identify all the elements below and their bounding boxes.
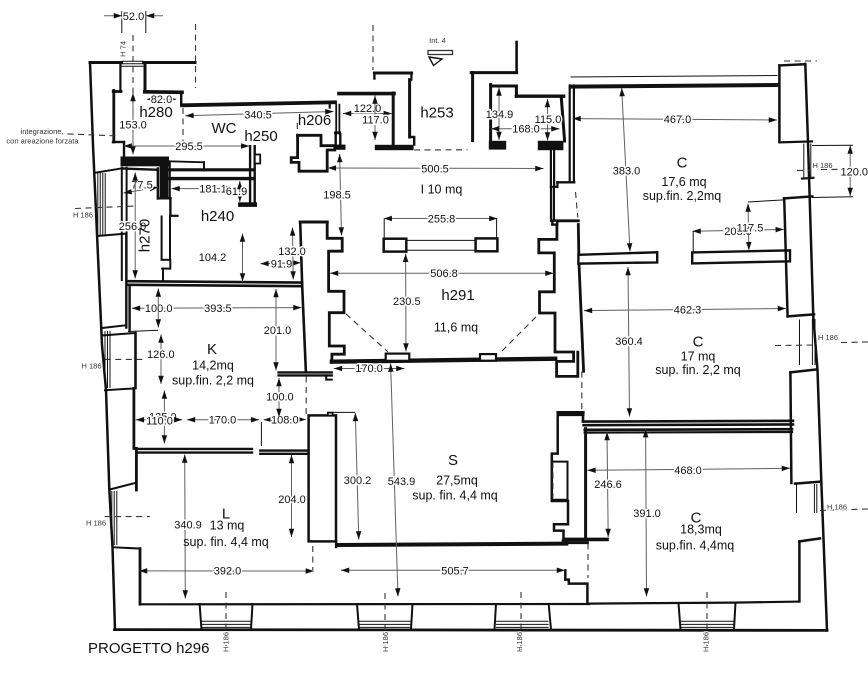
svg-text:17,6 mq: 17,6 mq xyxy=(661,175,706,189)
svg-text:h280: h280 xyxy=(139,104,172,121)
svg-text:H 186: H 186 xyxy=(81,362,101,371)
svg-text:543.9: 543.9 xyxy=(388,476,416,488)
svg-text:C: C xyxy=(693,334,704,351)
svg-text:110.0: 110.0 xyxy=(146,415,173,427)
svg-text:198.5: 198.5 xyxy=(323,190,351,202)
svg-text:integrazione: integrazione xyxy=(21,127,62,136)
svg-text:27,5mq: 27,5mq xyxy=(436,474,478,488)
svg-text:467.0: 467.0 xyxy=(664,114,692,126)
svg-text:181.1: 181.1 xyxy=(199,183,227,195)
svg-text:H 186: H 186 xyxy=(818,333,838,342)
svg-text:h206: h206 xyxy=(298,112,331,129)
svg-text:383.0: 383.0 xyxy=(613,165,641,177)
svg-text:120.0: 120.0 xyxy=(841,167,868,179)
svg-text:77.5: 77.5 xyxy=(131,179,152,191)
svg-text:h250: h250 xyxy=(244,128,277,145)
svg-text:100.0: 100.0 xyxy=(266,392,294,404)
svg-text:h253: h253 xyxy=(420,105,453,122)
svg-text:18,3mq: 18,3mq xyxy=(680,523,722,537)
svg-text:117.5: 117.5 xyxy=(737,222,764,234)
svg-text:391.0: 391.0 xyxy=(633,508,661,520)
svg-text:201.0: 201.0 xyxy=(264,325,292,337)
svg-text:153.0: 153.0 xyxy=(119,119,147,131)
svg-text:61.9: 61.9 xyxy=(226,186,247,198)
svg-text:h291: h291 xyxy=(441,287,474,304)
svg-text:13 mq: 13 mq xyxy=(210,519,245,533)
svg-text:170.0: 170.0 xyxy=(209,414,237,426)
svg-text:300.2: 300.2 xyxy=(344,475,372,487)
svg-text:117.0: 117.0 xyxy=(362,114,389,126)
svg-text:H 186: H 186 xyxy=(381,632,390,652)
svg-text:11,6 mq: 11,6 mq xyxy=(434,321,478,335)
svg-text:134.9: 134.9 xyxy=(486,109,514,121)
svg-text:sup.fin. 4,4mq: sup.fin. 4,4mq xyxy=(656,539,735,553)
svg-text:H 186: H 186 xyxy=(702,632,711,652)
svg-text:108.0: 108.0 xyxy=(271,414,299,426)
svg-text:WC: WC xyxy=(212,120,237,137)
svg-text:sup. fin. 4,4 mq: sup. fin. 4,4 mq xyxy=(412,489,498,503)
svg-text:17 mq: 17 mq xyxy=(681,350,716,364)
svg-text:462.3: 462.3 xyxy=(674,304,702,316)
svg-text:52.0: 52.0 xyxy=(123,11,144,23)
svg-text:H 186: H 186 xyxy=(86,519,106,528)
svg-text:122.0: 122.0 xyxy=(354,103,382,115)
svg-text:506.8: 506.8 xyxy=(430,268,458,280)
svg-text:I 10 mq: I 10 mq xyxy=(421,183,463,197)
svg-text:295.5: 295.5 xyxy=(175,141,203,153)
svg-text:sup.fin. 2,2 mq: sup.fin. 2,2 mq xyxy=(172,373,254,387)
svg-text:340.5: 340.5 xyxy=(244,110,272,122)
svg-text:360.4: 360.4 xyxy=(615,336,643,348)
svg-text:H 186: H 186 xyxy=(222,632,231,652)
svg-text:246.6: 246.6 xyxy=(594,479,622,491)
svg-text:132.0: 132.0 xyxy=(278,246,306,258)
svg-text:H 74: H 74 xyxy=(119,41,128,57)
svg-text:Int. 4: Int. 4 xyxy=(429,36,446,45)
svg-text:392.0: 392.0 xyxy=(214,566,242,578)
svg-text:255.8: 255.8 xyxy=(428,213,456,225)
svg-text:468.0: 468.0 xyxy=(674,465,702,477)
svg-text:126.0: 126.0 xyxy=(147,349,175,361)
svg-text:h270: h270 xyxy=(137,219,154,252)
svg-text:91.9: 91.9 xyxy=(271,259,292,271)
svg-text:con areazione forzata: con areazione forzata xyxy=(6,137,79,146)
svg-text:S: S xyxy=(448,452,458,469)
svg-text:340.9: 340.9 xyxy=(174,519,202,531)
svg-text:204.0: 204.0 xyxy=(278,494,306,506)
svg-text:104.2: 104.2 xyxy=(199,252,227,264)
svg-text:PROGETTO h296: PROGETTO h296 xyxy=(88,640,209,657)
svg-text:C: C xyxy=(677,155,688,172)
svg-text:sup.fin. 2,2mq: sup.fin. 2,2mq xyxy=(643,189,722,203)
svg-text:170.0: 170.0 xyxy=(355,363,383,375)
svg-text:230.5: 230.5 xyxy=(393,296,421,308)
svg-text:505.7: 505.7 xyxy=(441,565,469,577)
svg-text:sup. fin. 4,4 mq: sup. fin. 4,4 mq xyxy=(183,535,269,549)
svg-text:H 186: H 186 xyxy=(515,632,524,652)
svg-text:sup. fin. 2,2 mq: sup. fin. 2,2 mq xyxy=(655,363,741,377)
svg-text:H 186: H 186 xyxy=(827,503,847,512)
svg-text:393.5: 393.5 xyxy=(204,303,232,315)
svg-text:168.0: 168.0 xyxy=(512,123,540,135)
svg-text:H 186: H 186 xyxy=(813,161,833,170)
svg-text:K: K xyxy=(207,341,217,358)
svg-text:14,2mq: 14,2mq xyxy=(192,359,234,373)
svg-text:500.5: 500.5 xyxy=(421,164,449,176)
svg-text:h240: h240 xyxy=(201,208,234,225)
svg-text:H 186: H 186 xyxy=(73,211,93,220)
